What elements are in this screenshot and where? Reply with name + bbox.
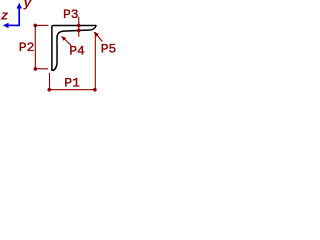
leader P3 xyxy=(78,17,80,37)
leader P3 dots xyxy=(77,24,81,28)
dimension P1 line xyxy=(49,32,95,90)
dimension P1 end dots xyxy=(47,88,51,92)
angle profile outline xyxy=(52,26,96,71)
dimension P2 end dots xyxy=(33,24,37,28)
svg-text:y: y xyxy=(23,0,33,11)
background xyxy=(0,0,130,100)
svg-text:z: z xyxy=(1,8,9,23)
svg-text:P4: P4 xyxy=(69,43,85,58)
svg-text:P5: P5 xyxy=(101,41,117,56)
arrow P4 xyxy=(64,39,71,46)
axis y arrow xyxy=(18,8,20,26)
dimension P2 line xyxy=(35,25,48,69)
svg-text:P1: P1 xyxy=(64,76,80,91)
axis z arrow xyxy=(3,3,22,28)
svg-text:P3: P3 xyxy=(63,7,79,22)
svg-text:P2: P2 xyxy=(19,40,35,55)
arrow P5 xyxy=(97,35,102,42)
